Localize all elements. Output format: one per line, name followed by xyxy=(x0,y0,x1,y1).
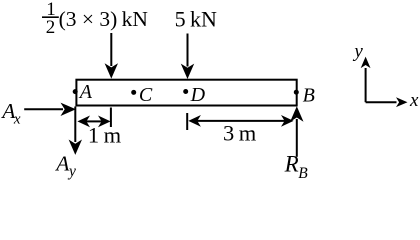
svg-text:3 m: 3 m xyxy=(223,121,257,146)
svg-text:B: B xyxy=(298,165,308,182)
svg-text:D: D xyxy=(190,84,206,106)
svg-text:1 m: 1 m xyxy=(88,122,122,147)
svg-text:R: R xyxy=(284,152,299,177)
svg-text:(3 × 3) kN: (3 × 3) kN xyxy=(59,7,149,31)
svg-text:y: y xyxy=(67,163,76,180)
svg-text:5 kN: 5 kN xyxy=(175,6,217,31)
svg-text:A: A xyxy=(78,81,93,103)
svg-text:y: y xyxy=(352,41,363,62)
svg-text:C: C xyxy=(139,84,153,106)
svg-text:A: A xyxy=(54,151,70,175)
svg-text:2: 2 xyxy=(46,17,56,38)
svg-text:B: B xyxy=(303,85,315,107)
svg-text:x: x xyxy=(409,90,419,111)
svg-text:x: x xyxy=(13,112,21,128)
